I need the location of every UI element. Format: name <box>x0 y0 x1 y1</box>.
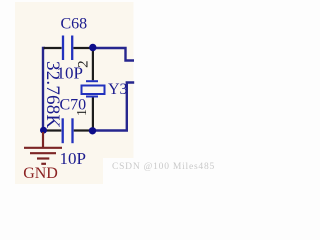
ground symbol bar 3 <box>37 157 49 159</box>
capacitor C70 right pin <box>74 129 90 131</box>
capacitor C70 left pin <box>45 129 61 131</box>
ground symbol stem <box>42 132 44 147</box>
svg-text:Y3: Y3 <box>108 81 128 98</box>
page background <box>0 0 214 184</box>
junction: bottom left node (GND) <box>40 127 47 134</box>
svg-text:10P: 10P <box>60 149 86 168</box>
junction: top node (XTAL1) <box>89 44 96 51</box>
ground symbol bar 4 <box>41 163 46 165</box>
wire: XTAL1 net from top junction to pin stub (step) <box>96 48 134 61</box>
svg-text:32.768K: 32.768K <box>42 61 63 128</box>
schematic sheet background (lower left) <box>15 158 103 184</box>
capacitor C68 right pin <box>73 47 90 49</box>
svg-text:C68: C68 <box>61 16 88 33</box>
crystal Y3 plates <box>86 80 98 82</box>
crystal Y3 pin 1 (bottom) <box>92 98 94 129</box>
svg-text:GND: GND <box>23 165 58 182</box>
capacitor C68 plates <box>62 36 64 61</box>
crystal Y3 body <box>82 86 105 95</box>
schematic sheet background (upper) <box>15 2 134 158</box>
ground symbol bar 1 <box>24 147 62 149</box>
wire: XTAL2 net loop from bottom junction up to pin stub <box>95 83 134 131</box>
capacitor C68 left pin <box>44 47 62 49</box>
svg-text:1: 1 <box>75 109 90 116</box>
junction: bottom middle node (XTAL2) <box>89 127 96 134</box>
svg-text:CSDN @100 Miles485: CSDN @100 Miles485 <box>112 162 214 172</box>
crystal Y3 pin 2 (top) <box>92 50 94 80</box>
capacitor C70 plates <box>62 118 64 143</box>
wire: left GND rail (vertical) <box>43 48 45 130</box>
ground symbol bar 2 <box>30 152 56 154</box>
svg-text:2: 2 <box>76 60 92 68</box>
